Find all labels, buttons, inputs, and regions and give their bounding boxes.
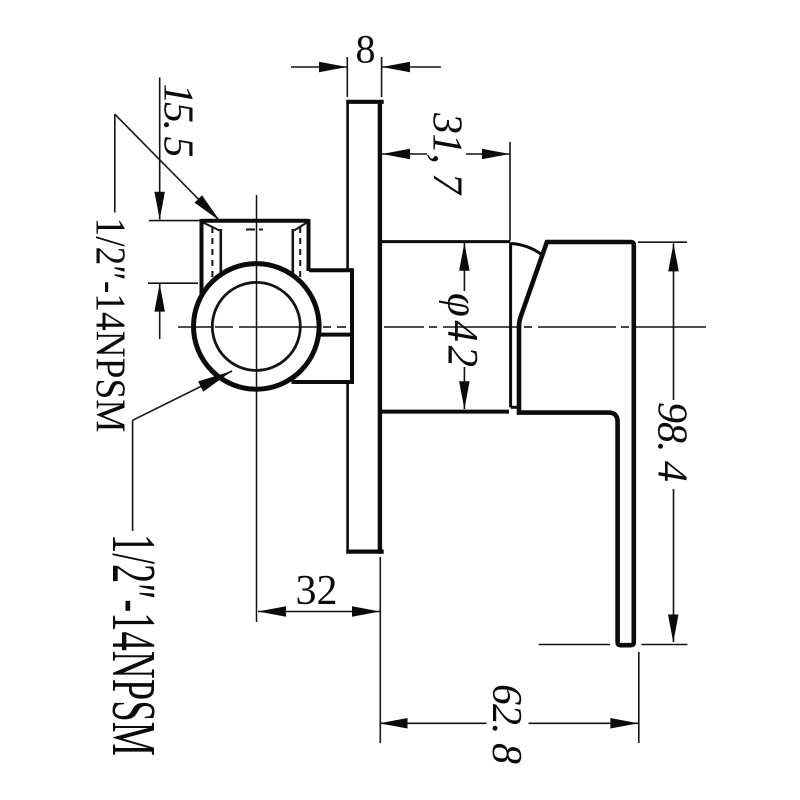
svg-text:62. 8: 62. 8 bbox=[483, 684, 529, 764]
centerline vertical axis bbox=[256, 195, 258, 622]
dim 8 (plate thickness) bbox=[346, 57, 348, 97]
escutcheon dome curve bbox=[511, 244, 542, 255]
dim 32 bbox=[258, 611, 380, 613]
valve body outer circle bbox=[193, 264, 319, 390]
svg-text:1/2″-14NPSM: 1/2″-14NPSM bbox=[87, 218, 133, 433]
valve neck bbox=[321, 271, 351, 381]
wall plate bbox=[346, 100, 383, 555]
svg-text:32: 32 bbox=[296, 568, 338, 614]
valve body inner circle bbox=[212, 282, 300, 370]
dim 98.4 bbox=[638, 241, 687, 243]
inlet fitting bbox=[201, 219, 308, 223]
dim phi42 bbox=[463, 243, 465, 291]
thread dashed lines bbox=[211, 227, 213, 281]
centerline horizontal bbox=[178, 326, 211, 328]
dim 31.7 bbox=[509, 142, 511, 240]
leader 1/2-14NPSM bottom bbox=[133, 371, 232, 420]
dim 62.8 bbox=[379, 557, 381, 743]
svg-text:31, 7: 31, 7 bbox=[424, 112, 470, 196]
svg-text:1/2″-14NPSM: 1/2″-14NPSM bbox=[99, 534, 167, 756]
escutcheon bbox=[382, 240, 511, 243]
svg-text:φ42: φ42 bbox=[439, 293, 486, 367]
handle lever bbox=[519, 242, 634, 645]
svg-text:98. 4: 98. 4 bbox=[649, 402, 695, 482]
svg-text:15. 5: 15. 5 bbox=[155, 84, 201, 158]
leader 1/2-14NPSM top bbox=[115, 114, 220, 221]
svg-text:8: 8 bbox=[356, 27, 376, 72]
dim 15.5 bbox=[159, 78, 161, 220]
